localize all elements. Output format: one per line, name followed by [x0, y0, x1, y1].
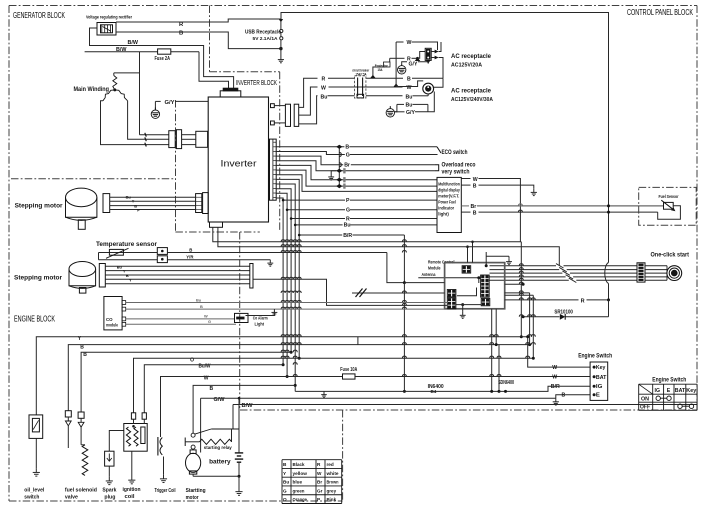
svg-text:B: B: [562, 392, 566, 398]
svg-text:Trigger Coil: Trigger Coil: [155, 488, 176, 494]
svg-text:yellow: yellow: [293, 471, 308, 476]
svg-text:meter(V.F.T.: meter(V.F.T.: [438, 194, 459, 199]
svg-text:R: R: [322, 77, 326, 83]
svg-text:P: P: [137, 208, 140, 213]
svg-text:IG: IG: [596, 384, 603, 390]
svg-text:IG: IG: [655, 388, 660, 394]
svg-text:red: red: [327, 462, 334, 467]
svg-text:INVERTER BLOCK: INVERTER BLOCK: [236, 78, 277, 87]
svg-text:15A: 15A: [378, 68, 383, 72]
svg-text:Key: Key: [596, 365, 606, 371]
svg-text:Bu: Bu: [344, 223, 351, 229]
svg-text:OFF: OFF: [640, 405, 650, 411]
svg-text:P: P: [346, 198, 350, 204]
svg-text:Voltage regulating rectifier: Voltage regulating rectifier: [86, 15, 132, 20]
svg-text:fuel solenoid: fuel solenoid: [65, 488, 97, 494]
svg-text:module: module: [106, 323, 118, 328]
svg-text:G/Y: G/Y: [409, 62, 418, 68]
svg-text:Br: Br: [317, 480, 322, 485]
svg-text:Engine Switch: Engine Switch: [652, 378, 686, 384]
svg-text:O: O: [283, 497, 287, 502]
svg-text:Br: Br: [344, 163, 350, 169]
svg-text:Pink: Pink: [327, 497, 337, 502]
svg-text:Bu: Bu: [283, 480, 289, 485]
svg-text:grey: grey: [327, 488, 337, 493]
svg-text:G/Y: G/Y: [165, 100, 175, 106]
svg-text:GENERATOR BLOCK: GENERATOR BLOCK: [13, 11, 65, 20]
svg-text:light): light): [438, 212, 449, 217]
svg-text:G: G: [346, 208, 350, 214]
svg-text:Temperature sensor: Temperature sensor: [96, 241, 158, 248]
svg-text:Bu: Bu: [196, 298, 202, 303]
svg-text:Br: Br: [471, 204, 477, 210]
svg-text:Brown: Brown: [327, 480, 339, 485]
svg-text:B/R: B/R: [343, 233, 352, 239]
svg-text:BAT: BAT: [675, 388, 686, 394]
svg-text:AC receptacle: AC receptacle: [451, 89, 492, 95]
svg-text:B/R: B/R: [551, 384, 560, 390]
svg-text:G: G: [283, 488, 287, 493]
svg-text:indicator: indicator: [438, 206, 454, 211]
svg-text:valve: valve: [65, 495, 78, 501]
svg-text:Light: Light: [255, 322, 265, 327]
svg-text:switch: switch: [24, 495, 39, 501]
svg-text:W: W: [204, 314, 208, 319]
svg-text:starting relay: starting relay: [204, 445, 232, 450]
svg-text:W: W: [407, 40, 412, 46]
svg-text:Engine Switch: Engine Switch: [578, 353, 612, 359]
svg-text:Stepping motor: Stepping motor: [14, 275, 63, 282]
svg-text:B: B: [189, 247, 192, 252]
svg-text:Power Fuel: Power Fuel: [438, 200, 456, 205]
svg-text:AC125V/240V/30A: AC125V/240V/30A: [451, 97, 493, 103]
svg-text:AC125V/20A: AC125V/20A: [451, 63, 482, 69]
svg-text:SR10100: SR10100: [554, 310, 573, 316]
svg-text:very switch: very switch: [442, 169, 470, 175]
svg-text:green: green: [293, 488, 305, 493]
svg-text:B4: B4: [431, 389, 437, 394]
svg-text:Y: Y: [129, 278, 132, 283]
svg-text:B: B: [200, 304, 203, 309]
svg-text:One-click start: One-click start: [651, 252, 690, 259]
svg-text:Antenna: Antenna: [422, 272, 436, 277]
svg-text:digital display: digital display: [438, 188, 460, 193]
svg-text:P: P: [317, 497, 320, 502]
svg-text:Overload reco: Overload reco: [442, 162, 476, 168]
svg-text:B: B: [83, 352, 87, 358]
svg-text:E: E: [596, 393, 601, 399]
svg-text:ON: ON: [641, 396, 649, 402]
svg-text:Bu: Bu: [126, 195, 132, 200]
svg-text:CONTROL PANEL BLOCK: CONTROL PANEL BLOCK: [627, 8, 693, 17]
svg-text:15A/7.5A: 15A/7.5A: [356, 72, 367, 76]
svg-text:W: W: [473, 177, 478, 183]
svg-text:Orange: Orange: [293, 497, 308, 502]
svg-text:G: G: [208, 319, 211, 324]
svg-text:B: B: [407, 77, 411, 83]
svg-text:Fuse 2A: Fuse 2A: [155, 56, 171, 62]
svg-text:USB Receptacle: USB Receptacle: [245, 30, 281, 36]
svg-text:ignition: ignition: [123, 487, 141, 493]
svg-text:B: B: [473, 210, 477, 216]
svg-text:plug: plug: [104, 495, 115, 501]
svg-text:ENGINE BLOCK: ENGINE BLOCK: [14, 315, 55, 324]
svg-text:motor: motor: [186, 495, 199, 501]
svg-text:Bu: Bu: [321, 94, 328, 100]
svg-text:Gr: Gr: [317, 488, 323, 493]
svg-text:B/W: B/W: [116, 47, 127, 53]
svg-text:ECO switch: ECO switch: [442, 150, 468, 156]
svg-text:B: B: [210, 386, 214, 392]
svg-text:Startting: Startting: [186, 488, 206, 494]
svg-text:blue: blue: [293, 480, 303, 485]
svg-text:B: B: [345, 145, 349, 151]
svg-text:G/W: G/W: [214, 397, 225, 403]
svg-text:W: W: [321, 85, 326, 91]
svg-text:Y/R: Y/R: [186, 255, 194, 260]
svg-text:Fuel Sensor: Fuel Sensor: [659, 194, 679, 199]
svg-text:oil_level: oil_level: [24, 488, 45, 494]
svg-text:Key: Key: [686, 388, 696, 394]
svg-text:Bu: Bu: [406, 102, 413, 108]
svg-text:Main Winding: Main Winding: [74, 86, 110, 93]
svg-text:G/Y: G/Y: [406, 110, 415, 116]
svg-text:B: B: [473, 183, 477, 189]
svg-text:5V 2.1A/1A: 5V 2.1A/1A: [253, 36, 279, 41]
svg-text:Bu: Bu: [406, 94, 413, 100]
svg-text:B/W: B/W: [242, 403, 253, 409]
svg-text:battery: battery: [209, 459, 231, 466]
svg-text:E: E: [667, 388, 671, 394]
svg-text:R: R: [581, 298, 585, 304]
svg-text:Stepping motor: Stepping motor: [15, 203, 64, 210]
svg-text:white: white: [325, 471, 338, 476]
svg-text:Spark: Spark: [102, 488, 116, 494]
svg-text:BAT: BAT: [596, 375, 607, 381]
svg-text:Module: Module: [428, 266, 441, 271]
svg-text:SDN6400: SDN6400: [498, 380, 514, 386]
svg-text:W: W: [317, 471, 322, 476]
svg-text:B: B: [80, 344, 84, 350]
svg-text:W: W: [552, 374, 557, 380]
svg-text:B/W: B/W: [128, 40, 139, 46]
svg-text:AC receptacle: AC receptacle: [451, 54, 492, 60]
svg-text:Co Alarm: Co Alarm: [253, 316, 268, 321]
svg-text:G: G: [346, 152, 350, 158]
svg-text:CO: CO: [106, 317, 113, 322]
svg-text:Black: Black: [293, 462, 305, 467]
svg-text:Bu: Bu: [117, 265, 123, 270]
svg-text:Fuse 10A: Fuse 10A: [340, 367, 357, 373]
svg-text:B: B: [179, 31, 183, 37]
svg-text:Multifunction: Multifunction: [438, 182, 460, 187]
svg-text:W: W: [552, 365, 557, 371]
svg-text:Inverter: Inverter: [221, 159, 257, 170]
svg-text:coil: coil: [125, 494, 136, 500]
